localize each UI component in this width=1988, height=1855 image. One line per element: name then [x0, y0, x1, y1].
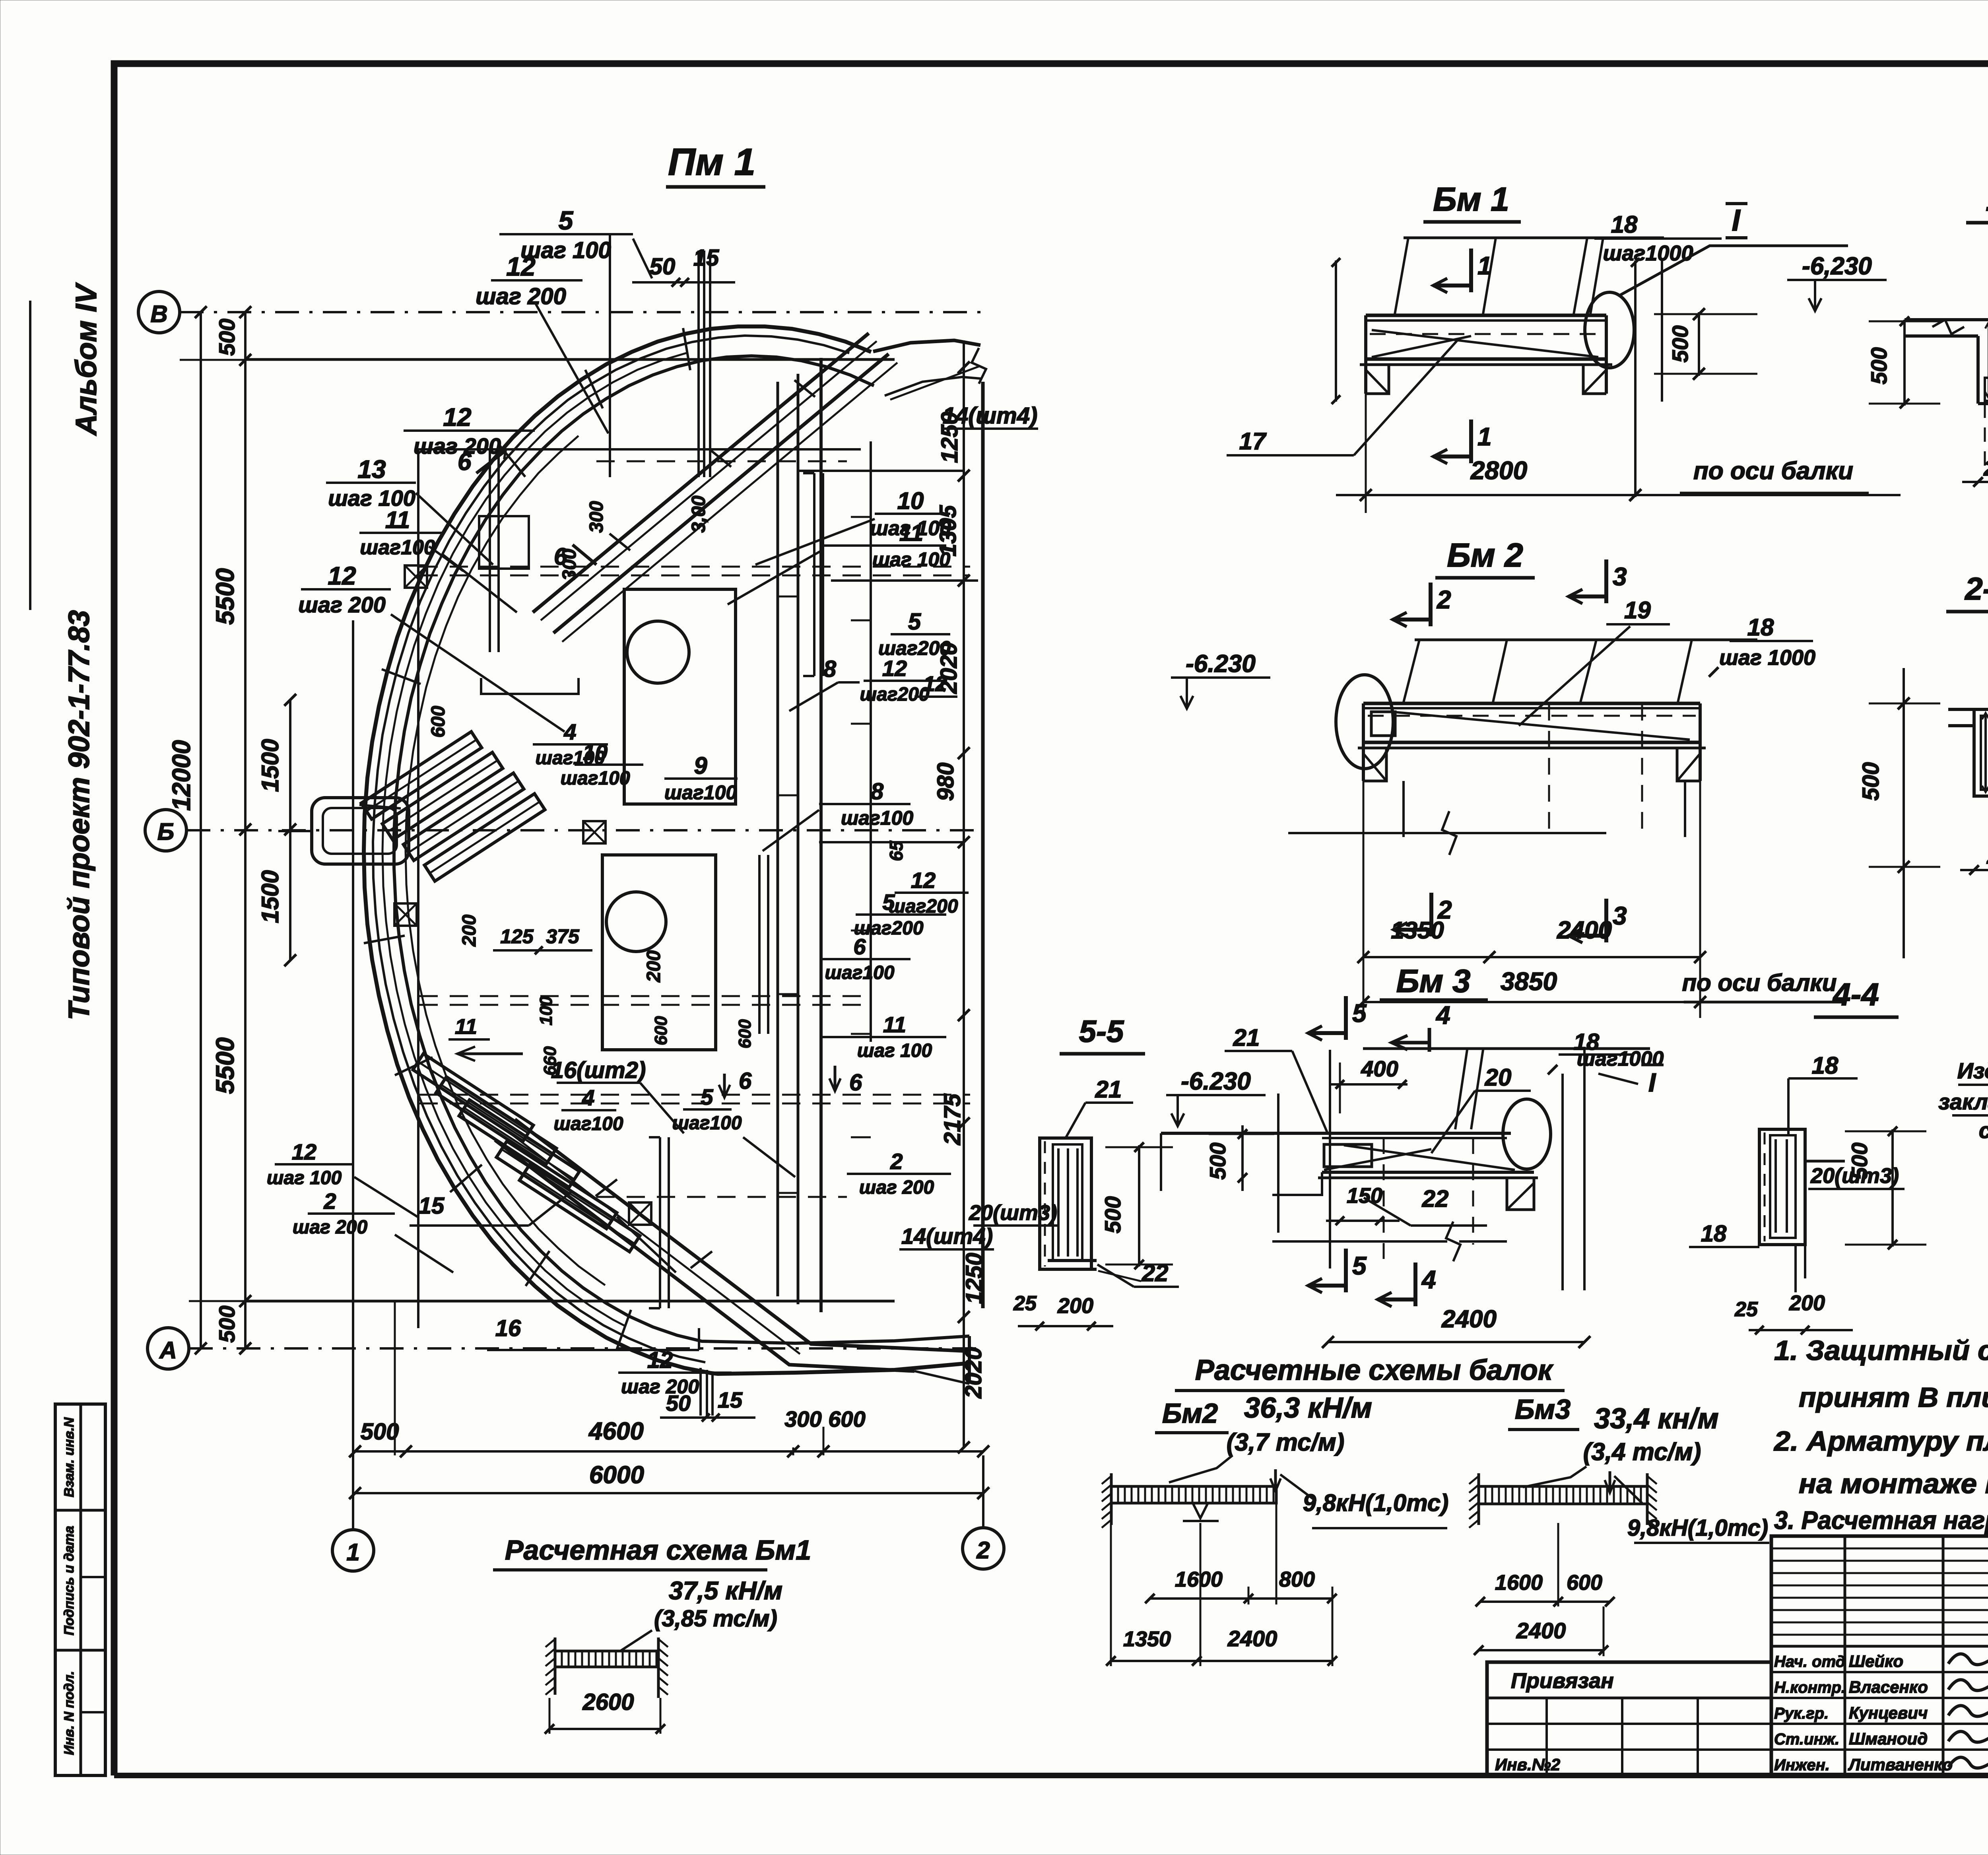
- svg-text:шаг 200: шаг 200: [293, 1217, 368, 1238]
- svg-text:500: 500: [1668, 325, 1693, 362]
- plate left edge: [417, 449, 419, 1328]
- svg-text:Бм2: Бм2: [1162, 1398, 1218, 1429]
- svg-text:шаг 200: шаг 200: [414, 433, 501, 458]
- svg-text:2: 2: [890, 1149, 903, 1174]
- svg-text:2400: 2400: [1516, 1618, 1566, 1643]
- svg-text:5: 5: [559, 206, 574, 235]
- svg-text:22: 22: [1422, 1185, 1449, 1212]
- svg-text:4: 4: [582, 1085, 594, 1110]
- svg-text:2: 2: [1437, 585, 1451, 614]
- svg-text:300: 300: [586, 501, 607, 533]
- svg-text:5: 5: [882, 890, 895, 915]
- svg-text:1500: 1500: [257, 739, 283, 792]
- upper diagonal beam band: [533, 333, 869, 612]
- svg-text:3. Расчетная нагрузка на пл: 3. Расчетная нагрузка на плиту составляе…: [1774, 1506, 1988, 1535]
- right vertical edge lines: [777, 382, 779, 1296]
- svg-text:600: 600: [735, 1019, 755, 1049]
- svg-text:5: 5: [1352, 1251, 1367, 1280]
- svg-text:10: 10: [897, 488, 924, 514]
- svg-text:21: 21: [1233, 1024, 1260, 1051]
- svg-text:5: 5: [908, 609, 921, 635]
- svg-text:Ст.инж.: Ст.инж.: [1774, 1731, 1839, 1748]
- bottom joint verticals: [699, 1368, 702, 1416]
- Бм3 dim 2400: [1328, 1341, 1584, 1343]
- svg-text:I: I: [1732, 204, 1741, 237]
- stamp grid: [1771, 1536, 1988, 1775]
- svg-text:Кунцевич: Кунцевич: [1849, 1703, 1928, 1722]
- svg-text:Альбом IV: Альбом IV: [70, 282, 103, 436]
- svg-text:Подпись и дата: Подпись и дата: [62, 1526, 77, 1636]
- svg-text:шаг 200: шаг 200: [859, 1177, 934, 1198]
- svg-text:шаг100: шаг100: [535, 748, 605, 769]
- svg-text:12: 12: [506, 252, 536, 281]
- svg-text:по оси балки: по оси балки: [1682, 969, 1837, 996]
- svg-text:150: 150: [1347, 1184, 1382, 1208]
- svg-text:15: 15: [718, 1387, 743, 1412]
- beam Бм2 body: [1363, 702, 1700, 705]
- Бм3 dim 500 left: [1241, 1125, 1244, 1191]
- svg-text:16: 16: [495, 1315, 521, 1341]
- схема Бм3 dims: [1480, 1601, 1610, 1603]
- top leader verticals (50/15 joints): [609, 234, 611, 477]
- svg-text:Нач. отд: Нач. отд: [1774, 1653, 1845, 1670]
- section 5-5 body: [1040, 1138, 1091, 1269]
- Бм3 bottom line with break: [1272, 1240, 1447, 1243]
- tank wall inner edge: [394, 356, 969, 1343]
- svg-text:Инжен.: Инжен.: [1774, 1756, 1830, 1774]
- left dim 1500/1500: [289, 700, 291, 960]
- схема Бм3 supports: [1469, 1476, 1479, 1484]
- pump unit lower: [413, 1054, 534, 1141]
- svg-text:6: 6: [739, 1068, 752, 1094]
- svg-text:200: 200: [1057, 1294, 1093, 1318]
- svg-text:4: 4: [1421, 1265, 1436, 1294]
- hatch circle 2: [606, 892, 666, 952]
- svg-text:-6,230: -6,230: [1802, 253, 1872, 280]
- svg-text:200: 200: [1986, 845, 1988, 868]
- Бм1 bottom dims: [1336, 494, 1901, 496]
- svg-text:2. Арматуру плиты и стержн: 2. Арматуру плиты и стержни поз.2 сварит…: [1773, 1426, 1988, 1457]
- Бм2 vertical dashed and break: [1548, 704, 1550, 837]
- svg-text:3: 3: [1613, 901, 1627, 930]
- svg-text:стене: стене: [1979, 1118, 1988, 1143]
- small rebar band rect upper: [479, 516, 529, 569]
- svg-text:1-1: 1-1: [1986, 182, 1988, 218]
- pump unit upper: [361, 732, 482, 819]
- section 1-1 body: [1905, 318, 1988, 321]
- svg-text:шаг100: шаг100: [560, 768, 630, 789]
- svg-text:Шманоид: Шманоид: [1849, 1729, 1928, 1748]
- left dim 500/5500 chain: [244, 312, 247, 1348]
- tank wall outer edge: [364, 326, 969, 1374]
- svg-text:Бм3: Бм3: [1515, 1394, 1571, 1425]
- svg-text:Инв.№2: Инв.№2: [1495, 1755, 1560, 1774]
- svg-text:300: 300: [784, 1406, 821, 1432]
- svg-text:980: 980: [933, 763, 959, 801]
- Бм2 dims: [1363, 956, 1700, 958]
- Бм3 body: [1161, 1132, 1511, 1135]
- svg-text:12: 12: [292, 1139, 316, 1164]
- svg-text:11: 11: [455, 1015, 477, 1039]
- svg-text:2600: 2600: [582, 1689, 634, 1715]
- svg-text:500: 500: [214, 319, 239, 355]
- svg-text:2175: 2175: [940, 1094, 965, 1146]
- svg-text:500: 500: [1858, 762, 1884, 801]
- svg-text:3: 3: [1613, 562, 1627, 591]
- Бм2 section marks top: [1429, 583, 1433, 626]
- svg-text:37,5 кН/м: 37,5 кН/м: [669, 1576, 782, 1605]
- Бм2 dim 500 right: [1903, 668, 1905, 958]
- svg-text:400: 400: [1361, 1056, 1398, 1081]
- Бм1 dim 500: [1698, 312, 1700, 376]
- svg-text:12: 12: [882, 656, 907, 681]
- svg-text:шаг100: шаг100: [360, 536, 435, 559]
- svg-text:14(шт4): 14(шт4): [901, 1224, 993, 1249]
- 1-1 dim 500: [1903, 320, 1906, 406]
- svg-text:А: А: [159, 1337, 177, 1364]
- svg-text:(3,85 тс/м): (3,85 тс/м): [654, 1606, 777, 1632]
- svg-text:(3,7 тс/м): (3,7 тс/м): [1227, 1429, 1345, 1456]
- wall facet joints: [683, 328, 690, 370]
- svg-text:300: 300: [559, 549, 580, 581]
- svg-text:шаг 100: шаг 100: [267, 1167, 342, 1189]
- Бм1 detail balloon: [1585, 292, 1634, 368]
- svg-text:1600: 1600: [1175, 1568, 1223, 1591]
- svg-text:15: 15: [693, 245, 719, 271]
- Бм1 section marks 1: [1469, 249, 1473, 292]
- Бм2 section marks bottom: [1429, 893, 1433, 936]
- svg-text:19: 19: [1624, 597, 1651, 624]
- svg-text:12: 12: [911, 868, 936, 893]
- svg-text:5: 5: [1352, 999, 1367, 1028]
- svg-text:800: 800: [1279, 1568, 1315, 1591]
- svg-text:500: 500: [1866, 347, 1891, 384]
- section 4-4 body: [1759, 1129, 1805, 1245]
- svg-text:Шейко: Шейко: [1849, 1652, 1903, 1670]
- Бм3 dashed verticals: [1383, 1138, 1385, 1268]
- axis Б: [145, 810, 186, 851]
- svg-text:3,00: 3,00: [688, 495, 709, 533]
- привязан box: [1487, 1662, 1771, 1775]
- svg-text:9: 9: [694, 752, 707, 779]
- svg-text:200: 200: [459, 915, 480, 947]
- svg-text:6: 6: [849, 1070, 862, 1096]
- svg-text:8: 8: [871, 779, 884, 804]
- svg-text:11: 11: [385, 507, 410, 533]
- svg-text:200: 200: [1983, 456, 1988, 480]
- svg-text:4: 4: [563, 719, 576, 744]
- wall top-right closure with break: [873, 340, 980, 352]
- svg-text:шаг 100: шаг 100: [857, 1040, 932, 1061]
- svg-text:500: 500: [1205, 1142, 1230, 1179]
- axis В: [138, 291, 180, 333]
- Бм3 balloon: [1503, 1099, 1551, 1169]
- axis 2: [963, 1528, 1004, 1569]
- svg-text:500: 500: [1847, 1142, 1872, 1179]
- svg-text:3850: 3850: [1501, 967, 1557, 996]
- svg-text:18: 18: [1701, 1221, 1727, 1247]
- svg-text:2: 2: [323, 1189, 336, 1214]
- svg-text:5500: 5500: [211, 568, 239, 625]
- svg-text:14(шт4): 14(шт4): [943, 403, 1038, 429]
- svg-text:600: 600: [1567, 1571, 1602, 1595]
- svg-text:5500: 5500: [211, 1037, 239, 1094]
- svg-text:шаг 200: шаг 200: [476, 284, 566, 309]
- svg-text:12: 12: [923, 672, 947, 696]
- svg-text:закладное В: закладное В: [1938, 1089, 1988, 1114]
- svg-text:(3,4 тс/м): (3,4 тс/м): [1583, 1438, 1701, 1466]
- svg-text:Бм 1: Бм 1: [1433, 181, 1509, 218]
- svg-text:660: 660: [540, 1046, 560, 1076]
- lower diagonal beam band: [515, 1119, 969, 1351]
- svg-text:36,3 кН/м: 36,3 кН/м: [1244, 1392, 1372, 1424]
- svg-text:Власенко: Власенко: [1849, 1678, 1928, 1696]
- svg-text:Изделие: Изделие: [1957, 1058, 1988, 1083]
- svg-text:-6.230: -6.230: [1186, 650, 1256, 678]
- section 2-2 body: [1948, 708, 1988, 711]
- svg-text:шаг1000: шаг1000: [1577, 1047, 1664, 1070]
- bottom-left stamp strip: [55, 1404, 105, 1775]
- svg-text:9,8кН(1,0тс): 9,8кН(1,0тс): [1303, 1490, 1448, 1516]
- svg-text:11: 11: [883, 1012, 906, 1037]
- svg-text:18: 18: [1611, 211, 1638, 238]
- left margin short line: [29, 301, 31, 610]
- svg-text:6000: 6000: [589, 1461, 644, 1489]
- svg-text:шаг 100: шаг 100: [872, 548, 950, 571]
- svg-text:500: 500: [361, 1419, 399, 1445]
- svg-text:50: 50: [666, 1391, 691, 1416]
- svg-text:600: 600: [428, 706, 449, 738]
- svg-text:2-2: 2-2: [1964, 571, 1988, 606]
- svg-text:Привязан: Привязан: [1511, 1669, 1614, 1693]
- vertical rebar band lines: [489, 449, 491, 652]
- svg-text:200: 200: [643, 950, 664, 983]
- схема Бм2 dims: [1150, 1597, 1332, 1600]
- svg-text:500: 500: [1100, 1196, 1125, 1233]
- svg-text:33,4 кн/м: 33,4 кн/м: [1594, 1403, 1718, 1435]
- wall bottom right hook: [968, 1336, 971, 1384]
- svg-text:Рук.гр.: Рук.гр.: [1774, 1705, 1829, 1722]
- svg-text:2800: 2800: [1470, 456, 1527, 485]
- svg-text:2020: 2020: [961, 1347, 986, 1399]
- left dim 12000: [200, 312, 202, 1348]
- svg-text:Инв. N подл.: Инв. N подл.: [62, 1671, 77, 1755]
- bottom dims: [355, 1450, 983, 1453]
- svg-text:50: 50: [650, 254, 676, 280]
- svg-text:1250: 1250: [961, 1253, 987, 1304]
- svg-text:Н.контр.: Н.контр.: [1774, 1679, 1846, 1696]
- svg-text:по оси балки: по оси балки: [1693, 457, 1853, 485]
- svg-text:4600: 4600: [588, 1418, 644, 1445]
- svg-text:шаг100: шаг100: [664, 781, 737, 804]
- svg-text:Пм 1: Пм 1: [668, 141, 755, 183]
- axis А: [148, 1328, 189, 1369]
- svg-text:-6.230: -6.230: [1181, 1068, 1251, 1095]
- svg-text:шаг 200: шаг 200: [298, 592, 386, 617]
- svg-text:12: 12: [328, 561, 356, 590]
- svg-text:200: 200: [1789, 1291, 1825, 1315]
- svg-text:6: 6: [853, 934, 866, 959]
- Бм2 stirrup top line: [1415, 639, 1757, 641]
- svg-text:шаг100: шаг100: [825, 962, 894, 983]
- svg-text:20(шт3): 20(шт3): [969, 1201, 1057, 1225]
- vertical rebar bands: [813, 473, 815, 676]
- svg-text:1. Защитный слой бетона до: 1. Защитный слой бетона до рабочей армат…: [1774, 1335, 1988, 1366]
- svg-text:1350: 1350: [1391, 917, 1444, 944]
- svg-text:1: 1: [1477, 422, 1492, 451]
- tank wall outer second line: [373, 336, 849, 1362]
- svg-text:шаг200: шаг200: [860, 684, 929, 705]
- beam Бм1 body: [1366, 314, 1606, 317]
- svg-text:принят В плите - 15 мм, В: принят В плите - 15 мм, В балках - 25 мм: [1799, 1382, 1988, 1413]
- svg-text:18: 18: [1747, 614, 1774, 641]
- svg-text:I: I: [1648, 1068, 1656, 1097]
- svg-text:600: 600: [828, 1406, 865, 1432]
- svg-text:125: 125: [500, 925, 534, 948]
- svg-text:1500: 1500: [257, 870, 283, 923]
- svg-text:6: 6: [458, 448, 472, 476]
- svg-text:на монтаже между собой при: на монтаже между собой при их пересечени…: [1799, 1468, 1988, 1499]
- svg-text:12000: 12000: [167, 740, 196, 811]
- svg-text:600: 600: [651, 1016, 671, 1045]
- svg-text:12: 12: [443, 403, 471, 431]
- tank wall mid thin line: [382, 353, 687, 1326]
- wall pipe stub at axis Б: [312, 798, 409, 864]
- svg-text:8: 8: [823, 656, 837, 682]
- stub marks: [851, 516, 871, 518]
- svg-text:1: 1: [346, 1539, 359, 1566]
- svg-text:шаг 1000: шаг 1000: [1719, 646, 1815, 670]
- svg-text:16(шт2): 16(шт2): [551, 1057, 646, 1083]
- svg-text:1600: 1600: [1495, 1571, 1543, 1595]
- opening rect 1: [624, 589, 736, 804]
- opening rect 2: [602, 855, 716, 1050]
- svg-text:2400: 2400: [1557, 917, 1612, 944]
- svg-text:4: 4: [1435, 1001, 1450, 1029]
- svg-text:15: 15: [419, 1193, 445, 1219]
- svg-text:500: 500: [214, 1305, 239, 1342]
- svg-text:17: 17: [1239, 428, 1267, 455]
- svg-text:2400: 2400: [1441, 1305, 1497, 1333]
- axis 1: [332, 1530, 374, 1571]
- svg-text:Расчетная схема Бм1: Расчетная схема Бм1: [505, 1535, 811, 1566]
- svg-text:1350: 1350: [1123, 1627, 1171, 1651]
- Бм3 section marks top: [1344, 996, 1348, 1040]
- svg-text:11: 11: [899, 520, 923, 546]
- Бм3 section marks bottom: [1344, 1249, 1348, 1292]
- svg-text:Типовой проект 902-1-77.83: Типовой проект 902-1-77.83: [62, 610, 95, 1020]
- Бм1 mark I leader: [1620, 246, 1848, 295]
- svg-text:25: 25: [1013, 1292, 1037, 1315]
- 4-4 dim 500: [1891, 1129, 1894, 1247]
- svg-text:100: 100: [536, 996, 556, 1026]
- Бм3 stirrup top line: [1363, 1047, 1650, 1050]
- svg-text:Бм 3: Бм 3: [1396, 963, 1470, 999]
- svg-text:В: В: [150, 301, 167, 327]
- svg-text:5-5: 5-5: [1079, 1014, 1124, 1049]
- svg-text:Бм 2: Бм 2: [1447, 536, 1523, 574]
- svg-text:25: 25: [1734, 1298, 1758, 1321]
- svg-text:375: 375: [546, 925, 580, 948]
- svg-text:13: 13: [357, 455, 386, 484]
- svg-text:шаг100: шаг100: [553, 1113, 623, 1134]
- Бм2 detail balloon: [1336, 675, 1393, 769]
- plan leader diagonals: [535, 302, 608, 433]
- svg-text:18: 18: [1812, 1052, 1839, 1079]
- svg-text:4-4: 4-4: [1832, 977, 1879, 1012]
- svg-text:Б: Б: [157, 818, 174, 845]
- svg-text:шаг100: шаг100: [841, 807, 914, 829]
- svg-text:5: 5: [701, 1084, 713, 1109]
- svg-text:21: 21: [1095, 1076, 1122, 1103]
- svg-text:2400: 2400: [1227, 1626, 1277, 1651]
- svg-text:2: 2: [976, 1537, 990, 1564]
- svg-text:1: 1: [1477, 251, 1492, 280]
- svg-text:Взам. инв.N: Взам. инв.N: [62, 1417, 77, 1497]
- embedded plate squares with X: [405, 565, 427, 588]
- svg-text:Расчетные схемы балок: Расчетные схемы балок: [1195, 1354, 1554, 1386]
- hatch circle 1: [627, 621, 689, 683]
- Бм3 left wall verticals: [1277, 1094, 1279, 1233]
- svg-text:20: 20: [1485, 1064, 1512, 1091]
- plate top edge line: [247, 358, 895, 361]
- hidden beam lines: [419, 566, 970, 568]
- svg-text:Литваненко: Литваненко: [1848, 1755, 1953, 1774]
- right dim line: [963, 340, 965, 1447]
- Бм1 stirrup line: [1404, 237, 1664, 239]
